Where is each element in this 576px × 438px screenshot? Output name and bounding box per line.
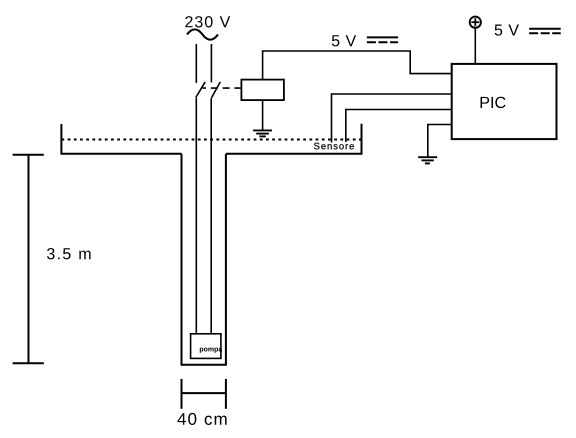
pump wire 1 <box>195 98 197 334</box>
PIC ground wire <box>428 125 452 158</box>
width dimension 40 cm <box>182 379 226 409</box>
ground under PIC <box>418 157 437 163</box>
well right wall <box>225 154 227 365</box>
label 5 V (left) <box>332 35 356 46</box>
label 230 V <box>185 16 230 27</box>
pump P1 box <box>191 334 221 359</box>
wire plus to PIC <box>474 28 476 64</box>
wire L1 upper <box>195 44 197 83</box>
switch S1 blade <box>196 82 205 98</box>
wire L2 upper <box>210 44 212 82</box>
ground surface right <box>226 124 362 154</box>
DC supply symbol (right) <box>529 28 561 30</box>
label 40 cm <box>177 413 226 425</box>
pump wire 2 <box>210 98 212 333</box>
water level dotted line <box>61 139 361 141</box>
pompa label <box>200 348 223 353</box>
ground surface left <box>61 124 181 154</box>
PIC U1 box <box>452 64 557 139</box>
PIC label <box>481 97 506 108</box>
label 5 V (right) <box>495 24 519 35</box>
label Sensore <box>314 143 354 150</box>
wire relay coil to 5V rail and PIC <box>263 51 452 80</box>
depth dimension line 3.5 m <box>13 155 44 363</box>
sensor wire A <box>332 94 452 143</box>
DC supply symbol (left) <box>367 36 398 38</box>
well left wall <box>181 154 183 365</box>
circled plus power pin <box>470 17 481 28</box>
ground under relay <box>253 130 272 136</box>
relay K1 box <box>241 80 284 101</box>
AC source sine <box>187 29 218 39</box>
label 3.5 m <box>47 248 91 259</box>
well bottom <box>181 364 227 366</box>
wire relay to ground <box>262 100 264 130</box>
sensor wire B <box>346 110 452 143</box>
switch linkage dashed <box>203 87 242 89</box>
switch S2 blade <box>211 82 220 98</box>
